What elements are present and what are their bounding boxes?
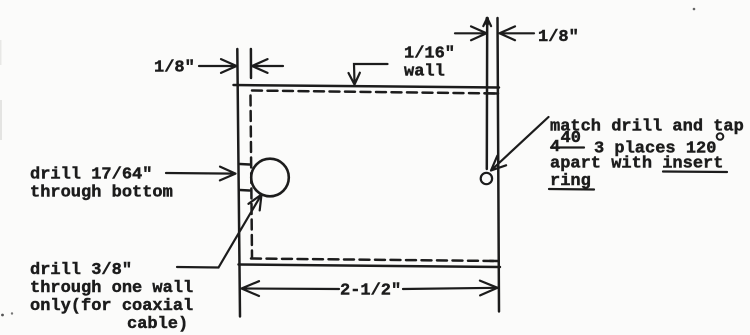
- wire 2-1/2 dimension line left segment: [243, 287, 340, 290]
- node 4-40 tapped hole circle: [481, 173, 492, 184]
- wire hidden hole dash lower: [240, 189, 250, 192]
- wire underline insert: [663, 170, 727, 173]
- wire solid dash segment at bottom-right corner: [490, 260, 498, 263]
- svg-text:apart with insert: apart with insert: [550, 155, 723, 174]
- wire 1/8 left dimension arrow line left: [199, 65, 236, 67]
- wire hidden hole dash upper: [240, 163, 250, 166]
- wire left wall outer line (box left edge + extensions): [237, 49, 240, 317]
- wire 2-1/2 dimension line right segment: [403, 288, 497, 289]
- wire right wall outer line: [498, 18, 500, 312]
- wire small up arrow at top of inner right wall line: [483, 18, 491, 26]
- svg-text:40: 40: [561, 129, 581, 148]
- svg-text:2-1/2": 2-1/2": [340, 282, 401, 301]
- wire 1/16 wall leader line: [354, 64, 388, 83]
- svg-text:ring: ring: [550, 172, 591, 191]
- svg-text:drill 17/64": drill 17/64": [30, 166, 152, 185]
- wire drill 3/8 leader line: [177, 195, 261, 267]
- wire solid dash segment at top-right corner: [485, 92, 499, 95]
- svg-text:through bottom: through bottom: [30, 184, 173, 203]
- wire drill 17/64 arrow line: [166, 172, 235, 175]
- wire left wall inner extension line above box: [250, 49, 253, 78]
- svg-text:only(for coaxial: only(for coaxial: [30, 297, 193, 316]
- svg-text:1/8": 1/8": [538, 28, 579, 47]
- svg-text:wall: wall: [404, 63, 445, 82]
- node 3/8 inch hole circle: [251, 159, 289, 197]
- wire 1/8 right dimension arrow line right: [500, 32, 534, 34]
- wire 1/8 left dimension arrow line right: [253, 65, 284, 67]
- svg-text:through one wall: through one wall: [30, 279, 193, 298]
- wire dashed inner top line: [252, 91, 498, 94]
- svg-text:1/16": 1/16": [404, 45, 455, 64]
- svg-text:drill 3/8": drill 3/8": [30, 261, 132, 280]
- wire dashed inner left line: [251, 96, 253, 258]
- wire box bottom edge: [239, 265, 501, 268]
- wire dashed inner bottom line: [251, 259, 497, 262]
- wire box top edge: [234, 85, 500, 88]
- wire match drill leader line: [492, 117, 549, 170]
- svg-text:cable): cable): [127, 315, 188, 334]
- wire right wall inner line: [486, 18, 489, 169]
- node degree symbol of 120: [717, 133, 724, 140]
- speckle marks: [1, 314, 4, 317]
- wire 1/8 right dimension arrow line left: [455, 32, 486, 34]
- svg-text:1/8": 1/8": [154, 59, 195, 78]
- wire 4-40 typed strike line: [551, 146, 584, 148]
- wire underline ring: [549, 188, 594, 191]
